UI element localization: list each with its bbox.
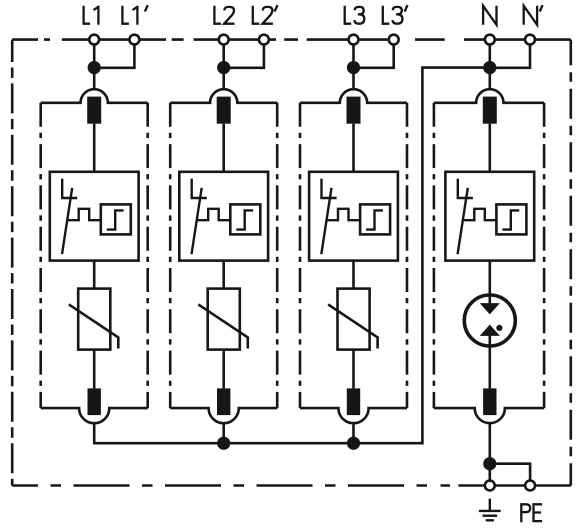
wire N disconnector down (488, 261, 491, 304)
wire N spark gap to block (488, 335, 491, 388)
disconnector N (thermal, with status indicator) (445, 172, 534, 261)
device boundary bottom (dash-dot, carries PE terminals) (12, 484, 571, 487)
terminal L1´ (129, 35, 139, 45)
label L1 (84, 6, 99, 25)
terminal block top L3 (347, 97, 361, 124)
label L2 (214, 6, 234, 24)
junction bus-L3 (347, 437, 360, 450)
terminal block bottom L1 (88, 388, 101, 415)
wire L2´ terminal to junction (224, 45, 264, 68)
module boundary L1 path (41, 89, 148, 423)
label N (483, 6, 496, 25)
wire N block to disconnector (488, 124, 491, 172)
terminal L2 (219, 35, 229, 45)
junction bus-L2 (217, 437, 230, 450)
wire L2 block to disconnector (222, 124, 225, 172)
terminal L1 (89, 35, 99, 45)
wire junction to ground terminal (488, 464, 491, 481)
disconnector L3 (thermal, with status indicator) (309, 172, 398, 261)
wire L2 module out to bus (222, 423, 225, 445)
spark gap N-PE (gas discharge tube) (464, 295, 515, 346)
wire L1 block to disconnector (93, 124, 96, 172)
wire riser + bottom bus (varistor commons) (94, 66, 422, 443)
terminal N (485, 35, 495, 45)
terminal ground (485, 481, 495, 491)
terminal PE (525, 481, 535, 491)
ground (479, 499, 501, 521)
wire L2 junction to module entry (222, 68, 225, 90)
wire L3´ terminal to junction (354, 45, 394, 68)
label L3´ (383, 5, 408, 24)
wire L3 varistor to block (352, 350, 355, 389)
wire L3 junction to module entry (352, 68, 355, 90)
junction L3 (347, 61, 360, 74)
wire N´ terminal to junction (490, 45, 530, 68)
terminal L3 (349, 35, 359, 45)
wire L3 terminal to junction (352, 45, 355, 68)
wire L1´ terminal to junction (94, 45, 134, 68)
wire L3 module out to bus (352, 423, 355, 445)
device boundary left (dash-dot) (11, 40, 14, 486)
wire L1 junction to module entry (93, 68, 96, 90)
terminal block bottom N (483, 388, 496, 415)
varistor L1-N (69, 289, 119, 350)
terminal block top L2 (217, 97, 231, 124)
terminal L3´ (389, 35, 399, 45)
wire junction to PE terminal (490, 464, 530, 481)
junction N-PE (483, 457, 496, 470)
wire L1 varistor to block (93, 350, 96, 389)
wire N junction to module entry (488, 68, 491, 90)
label N´ (524, 5, 543, 25)
module boundary L2 path (170, 89, 277, 423)
disconnector L2 (thermal, with status indicator) (179, 172, 268, 261)
terminal block bottom L3 (347, 388, 360, 415)
terminal L2´ (259, 35, 269, 45)
terminal N´ (525, 35, 535, 45)
wire L2 terminal to junction (222, 45, 225, 68)
wire L1 terminal to junction (93, 45, 96, 68)
label L2´ (253, 5, 278, 24)
terminal block bottom L2 (217, 388, 230, 415)
wire L3 disconnector down (352, 261, 355, 289)
module boundary L3 path (300, 89, 407, 423)
label L1´ (122, 5, 147, 25)
varistor L3-N (328, 289, 378, 350)
label PE (521, 504, 542, 522)
wire N terminal to junction (488, 45, 491, 68)
junction L1 (88, 61, 101, 74)
module boundary N-PE path (434, 89, 544, 423)
junction N (483, 61, 496, 74)
junction L2 (217, 61, 230, 74)
disconnector L1 (thermal, with status indicator) (50, 172, 139, 261)
terminal block top L1 (87, 97, 101, 124)
varistor L2-N (198, 289, 248, 350)
wire L1 disconnector down (93, 261, 96, 289)
device boundary top (dash-dot, carries terminals) (12, 38, 571, 41)
wire L2 varistor to block (222, 350, 225, 389)
label L3 (345, 6, 365, 24)
terminal block top N (483, 97, 497, 124)
wire N module out to PE junction (488, 423, 491, 464)
wire N junction to PE-bus riser (422, 66, 489, 69)
device boundary right (dash-dot) (569, 40, 572, 486)
wire L2 disconnector down (222, 261, 225, 289)
wire L1 module out to bus (93, 423, 96, 445)
wire L3 block to disconnector (352, 124, 355, 172)
